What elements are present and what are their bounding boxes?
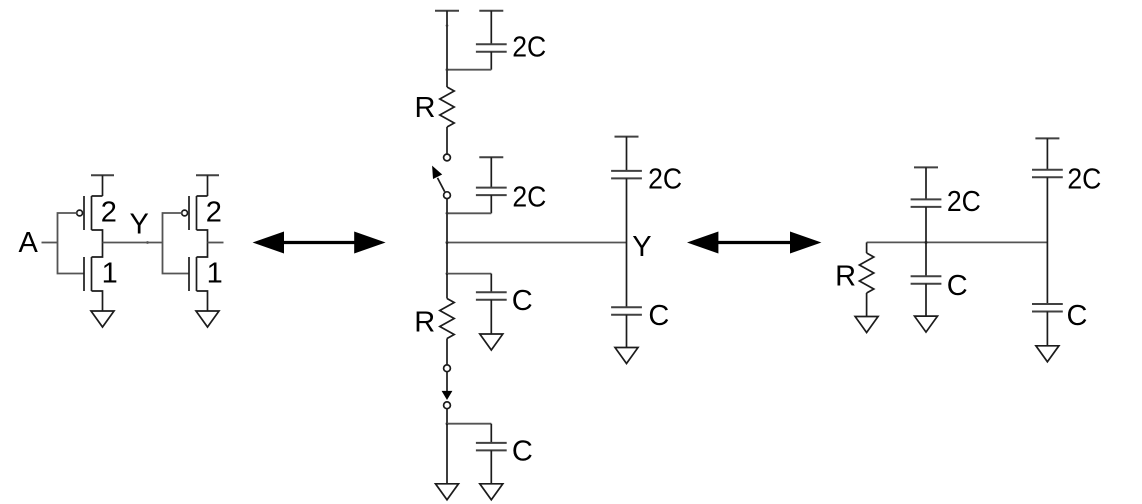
VDD rail of inverter U1 [91,175,114,196]
node wire (lumped model) [867,241,1048,244]
pMOS gate bubble of inverter U1 [77,210,83,216]
VDD symbol (lumped mid branch) [914,167,938,199]
VDD symbol (capacitor 2C top) [479,11,503,45]
wire switch to node [446,199,492,243]
ground of resistor R (lumped model) [855,317,878,333]
VDD symbol (capacitor 2C mid) [479,157,503,187]
label 2C (lumped mid branch) [947,186,981,218]
gate input bus of inverter U2 [163,213,190,274]
svg-text:1: 1 [102,257,118,289]
capacitor C (lumped right branch) [1032,304,1063,346]
label 2 (pMOS) of inverter U1 [101,197,117,229]
label R (pMOS model) [415,92,436,124]
nMOS transistor 1 of inverter U1 [84,243,103,312]
svg-text:R: R [835,261,856,293]
ground of inverter U2 [196,311,219,327]
svg-text:2: 2 [101,197,117,229]
label 2C (output branch) [648,164,682,196]
svg-text:2C: 2C [512,182,546,214]
svg-text:2C: 2C [512,31,546,63]
switch terminal (lower, pMOS model) [444,192,451,199]
svg-text:2C: 2C [1067,164,1101,196]
wire bottom junction to ground [446,424,448,484]
resistor R (lumped model) [859,242,873,316]
wire switch to bottom junction [446,409,449,425]
capacitor C (lumped mid branch) [911,242,942,316]
switch terminal (upper, nMOS model) [444,365,451,372]
capacitor 2C (lumped right branch) [1032,170,1063,304]
label Y (inverter output) [130,209,149,241]
wire resistor to switch [446,127,448,154]
label R (lumped model) [835,261,856,293]
VDD symbol (main column) [435,11,459,87]
switch terminal (lower, nMOS model) [444,402,451,409]
ground of lumped mid branch [915,316,938,332]
wire junction to capacitor C [447,273,491,275]
switch blade with arrow (pMOS model, open) [432,166,445,192]
ground of lumped right branch [1036,346,1059,362]
capacitor 2C (output branch) [611,171,642,307]
svg-text:C: C [512,285,533,317]
label 2C (mid) [512,182,546,214]
label 2C (lumped right branch) [1067,164,1101,196]
ground of output branch [615,348,638,364]
VDD symbol (lumped right branch) [1035,138,1059,169]
svg-text:Y: Y [632,231,651,263]
ground of bottom capacitor C [480,484,503,500]
label Y (middle model) [632,231,651,263]
equivalence arrow 1 [253,232,386,254]
label C (output branch) [648,300,669,332]
capacitor C (bottom, middle model) [476,424,507,484]
wire bottom junction to capacitor C [447,423,491,425]
wire joining 2C to R (top) [446,68,492,71]
svg-text:A: A [19,227,39,259]
pMOS transistor 2 of inverter U2 [189,196,208,243]
svg-text:C: C [1067,300,1088,332]
gate input bus of inverter U1 [58,213,85,274]
ground of capacitor C (nMOS model) [480,334,503,350]
svg-text:C: C [947,270,968,302]
label 1 (nMOS) of inverter U2 [207,257,223,289]
svg-text:2: 2 [206,197,222,229]
label A [19,227,39,259]
VDD symbol (output branch) [615,137,639,171]
nMOS transistor 1 of inverter U2 [189,243,208,312]
svg-text:2C: 2C [947,186,981,218]
switch blade with arrow (nMOS model, closed) [442,372,453,400]
input wire A [42,242,58,244]
svg-text:C: C [648,300,669,332]
pMOS transistor 2 of inverter U1 [84,196,103,243]
capacitor 2C (mid) [476,188,507,214]
wire node Y between inverters [103,241,163,244]
label 1 (nMOS) of inverter U1 [102,257,118,289]
label 2 (pMOS) of inverter U2 [206,197,222,229]
output stub of inverter U2 [208,242,224,244]
switch terminal (upper, pMOS model) [444,154,451,161]
svg-text:2C: 2C [648,164,682,196]
label C (bottom, middle model) [512,436,533,468]
wire node to lower junction [446,243,449,276]
label C (lumped mid branch) [947,270,968,302]
svg-text:R: R [415,92,436,124]
resistor R (nMOS model) [440,274,454,365]
VDD rail of inverter U2 [196,175,219,196]
svg-text:Y: Y [130,209,149,241]
label R (nMOS model) [414,307,435,339]
ground of inverter U1 [91,311,114,327]
label C (nMOS model) [512,285,533,317]
equivalence arrow 2 [687,232,821,254]
resistor R (pMOS model) [440,87,454,127]
node Y wire (middle model) [446,241,627,244]
label C (lumped right branch) [1067,300,1088,332]
ground (bottom left, middle model) [436,484,459,500]
pMOS gate bubble of inverter U2 [182,210,188,216]
capacitor 2C (lumped mid branch) [911,199,942,242]
svg-text:1: 1 [207,257,223,289]
svg-text:R: R [414,307,435,339]
label 2C (top) [512,31,546,63]
svg-text:C: C [512,436,533,468]
capacitor C (nMOS model) [476,274,507,334]
capacitor 2C (pMOS model, top) [476,44,507,69]
capacitor C (output branch) [611,307,642,347]
